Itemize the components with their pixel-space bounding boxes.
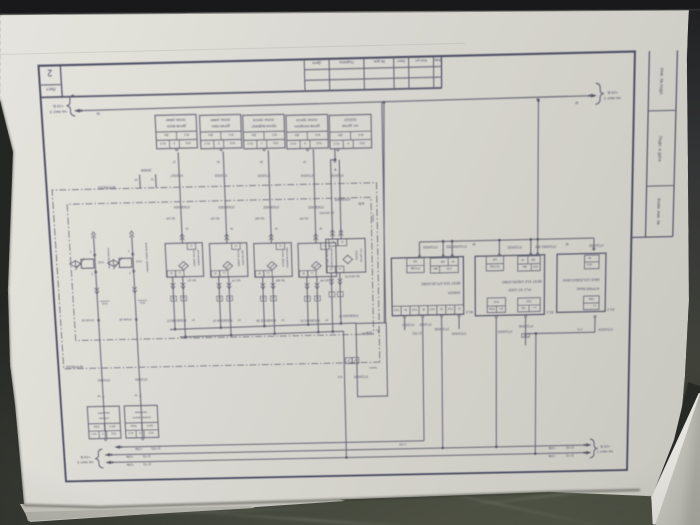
wire SK.UP signal [178,152,182,243]
pin boxes SK.UP [171,296,177,301]
sensor SK.OP output terminal cell [232,243,241,250]
module A1.2 EM220 box [391,257,463,316]
M bus II risers PLC [498,240,500,256]
brace right [95,449,103,468]
machine supply bus A [170,323,356,329]
valve VU2 bowtie symbol [70,261,82,268]
sensor block ХТ10017 box [155,114,197,148]
PLC bottom cells left group [518,256,541,271]
A3K dashed boundary [67,197,373,340]
M bus II risers EM220 [418,242,420,257]
wire EM220 to rail2 [442,317,443,448]
wire EM220 L+31 riser [423,318,424,441]
wires SK.WP supply pair [263,277,265,326]
EM220 top terminal cells [392,305,464,307]
brace bottom left [595,83,603,104]
sensor SK.UP supply terminal cells [175,270,184,277]
sensor SK.UP diamond symbol [179,261,189,270]
wires SK.OP supply pair [219,277,221,328]
M bus riser PLC M to top M bus [537,100,540,254]
pin boxes SK.WP [260,296,266,301]
chevron SK.WP signal [269,234,273,240]
wire ХТ10017 [176,147,178,149]
sensor SK.WP supply terminal cells [264,270,272,277]
sensor block ХТ10015 cell rows [244,138,285,141]
chevrons SK.HP supply [305,283,309,289]
valve VU1 pin circles [133,270,135,272]
SK.SFOTO twin signal wires [330,148,337,239]
chevron SK.OP signal [224,234,229,240]
chevron SK.UP signal [180,234,185,240]
margin column lines [646,51,650,237]
valve VU1 solenoid box [119,258,132,267]
wire ХТ10014 [307,147,309,149]
terminal circle ХТ10017 [176,148,178,150]
machine sensor SK.WP box [254,243,293,277]
valve VU1 pin tick [139,395,142,398]
+24V rail L+3 [110,445,586,455]
output block DQa Q0.4 box [124,405,159,438]
output block Q0.4 wire to valve [141,400,143,438]
valve VU2 pin tick [102,396,105,399]
label XT10018 pin 46 tick [334,168,337,171]
sensor block ХТ10016 box [199,114,241,148]
module A1.1 PLC S7-1200 box [475,255,545,316]
rail arrows to sheet 1 (left) [586,451,592,455]
reserve stub wires [139,175,142,188]
HMI top cell L+/Х80 [583,296,599,310]
sensor block ХТ10014 box [286,114,328,148]
sensor SK.HP supply terminal cells [308,270,316,277]
+24V rail L+31 [120,441,424,447]
riser M bus to A3K box [380,102,387,323]
wire SK.HP signal [313,149,316,243]
rail arrows to sheet 3 (right) [105,461,111,465]
EM220 terminal circles [458,315,460,317]
brace bottom right [67,95,76,116]
sensor SK.HP diamond symbol [311,262,321,271]
M bus arrows [591,94,597,98]
sensor block ХТ10017 cell rows [156,138,197,141]
HMI bottom cell М/Х10 [584,255,599,269]
SK.SFOTO diamond symbol [343,255,353,264]
machine sensor SK.UP box [165,243,204,277]
sensor block ХТ10018 cell rows [330,138,372,141]
output block Q0.3 wire to valve [103,400,105,438]
valve VU2 connector chevrons [95,288,100,294]
chevron SK.HP signal [314,234,318,240]
WYPRESS dashed machine boundary [52,183,380,369]
bus B corner riser to rail R1 [343,331,346,457]
chevrons SK.WP supply [261,283,265,289]
drawing frame border [38,51,634,481]
wire SK.OP signal [223,151,227,243]
PLC bottom cells right group [486,256,503,271]
margin cell dividers [647,185,674,188]
M bus junction dots [383,101,386,104]
valve VU1 wire [132,237,141,400]
valve VU1 bowtie symbol [108,260,120,267]
valve VU1 connector chevrons [132,287,137,293]
brace left [590,439,597,458]
wire PLC PE [525,317,527,333]
machine sensor SK.SFOTO box [326,238,366,273]
horizontal link L+1 to HMI [536,332,595,333]
M bus II horizontal [419,238,594,242]
SK.SFOTO bottom cells D D [338,239,347,246]
terminal circle ХТ10016 [220,148,222,150]
title block Лист graph box [60,65,62,97]
pin boxes SK.HP [304,296,310,301]
EM220 bottom cells [407,258,424,273]
valve VU2 pin circles [95,271,97,273]
sensor SK.OP supply terminal cells [220,270,229,277]
PLC top cells right group [487,298,505,313]
output block Q0.4 rows [126,429,159,432]
machine supply bus B [180,331,344,337]
bus A corner into A3K box edge [355,322,357,324]
wire junction L+1 drop [534,333,537,453]
riser main M bus to A3K box bottom [382,102,386,322]
chevrons SK.OP supply [217,283,221,289]
title block strip [41,88,442,98]
pin boxes SK.SFOTO [337,292,343,297]
PLC top cells left group [518,298,540,312]
terminal circle ХТ10015 [263,148,265,150]
M bus main horizontal [80,96,591,111]
sensor SK.OP diamond symbol [223,261,233,270]
wire PLC A to rail2 [495,446,497,449]
wire ХТ10018 [337,148,339,150]
wire PLC to rail2 [495,318,497,447]
valve VU1 boundary pin circle [135,318,137,320]
output block DQa Q0.3 box [87,406,121,439]
valve VU2 wire [94,237,104,400]
wires SK.HP supply pair [307,277,308,325]
title block revision columns [440,56,442,88]
sensor SK.HP output terminal cell [321,243,329,250]
+24V rail L+1 [111,453,586,463]
chevrons SK.SFOTO signal [330,230,334,236]
A3K solid terminal box [356,323,387,397]
machine sensor SK.HP box [298,243,337,278]
SK.SFOTO supply pair wires [340,273,341,324]
sensor block ХТ10015 box [243,114,285,148]
tiny terminal cells pair on A3K box edge [352,357,359,363]
chevrons SK.UP supply [171,283,176,289]
PLC terminal circles [525,315,527,317]
sensor block ХТ10014 cell rows [287,139,328,142]
terminal circle ХТ10018 [337,149,339,151]
EM220 upper terminal circles [418,255,420,257]
terminal circle ХТ10014 [306,148,308,150]
valve VU2 solenoid box [81,259,94,268]
chevrons SK.SFOTO supply [338,279,342,285]
PLC PE box [522,334,530,338]
EM220 stub wires [404,318,406,330]
wires SK.UP supply pair [173,277,176,329]
valve VU2 boundary pin circle [97,319,99,321]
sensor SK.WP output terminal cell [276,243,285,250]
wire ХТ10015 [263,147,265,149]
sensor SK.UP output terminal cell [187,243,196,250]
output block Q0.3 rows [89,430,121,433]
M bus II riser HMI [593,238,595,250]
SK.SFOTO terminal cells top [335,266,343,273]
module A1.3 KTP400 HMI box [557,253,606,312]
machine sensor SK.OP box [209,243,248,277]
sensor block ХТ10018 box [329,114,371,148]
wire SK.WP signal [268,150,271,243]
wire ХТ10016 [220,147,222,149]
pin boxes SK.OP [217,296,223,301]
sensor block ХТ10016 cell rows [201,138,242,141]
wire HMI L+ riser [594,318,596,332]
sensor SK.WP diamond symbol [267,261,277,270]
